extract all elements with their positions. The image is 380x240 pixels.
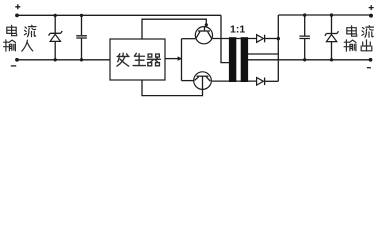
label + input <box>15 4 20 9</box>
transistor Q2 <box>194 72 212 90</box>
transformer T1 secondary bar <box>241 37 248 82</box>
zener diode D5 <box>325 31 339 41</box>
输 <box>344 40 356 51</box>
capacitor C1 vertical wire <box>81 15 83 60</box>
node output minus terminal <box>369 58 373 62</box>
电 <box>347 26 357 36</box>
wire generator output stub <box>165 58 178 60</box>
node dot Q1 top lead <box>205 23 208 26</box>
label + output <box>369 5 374 10</box>
wire Q2 collector to transformer <box>211 80 256 82</box>
输 <box>4 40 16 51</box>
wire top rail drop to primary centre tap <box>221 15 229 62</box>
diode D3 <box>257 35 265 43</box>
transistor Q1 <box>195 27 212 44</box>
node junction dots D1 <box>54 14 57 17</box>
node dot D3 out <box>277 37 280 40</box>
wire D4 to plus bus <box>265 80 278 82</box>
wire drive vertical <box>181 39 183 81</box>
node junction dots D5 <box>330 13 333 16</box>
生 <box>133 53 145 65</box>
出 <box>361 40 372 51</box>
zener diode D1 vertical wire <box>54 15 56 60</box>
label output text 输出 <box>344 40 372 51</box>
入 <box>22 40 33 51</box>
transformer T1 primary bar <box>229 37 236 82</box>
电 <box>7 25 17 35</box>
wire to Q2 base left <box>182 80 194 82</box>
zener diode D5 vertical wire <box>331 15 333 60</box>
wire to Q1 emitter left <box>182 38 196 40</box>
label input text 输入 <box>4 40 33 51</box>
label - output <box>367 67 371 69</box>
器 <box>147 54 160 66</box>
generator box U1 <box>110 39 165 80</box>
wire bottom-right rail from secondary <box>248 59 371 61</box>
流 <box>24 25 36 37</box>
label input text 电流 <box>7 25 36 37</box>
capacitor C1 <box>76 36 87 38</box>
wire plus bus vertical <box>277 15 279 81</box>
wire secondary upper tap <box>248 53 278 55</box>
label - input <box>11 65 16 67</box>
wire D3 to plus bus <box>265 38 278 40</box>
wire Q2 emitter return to generator bottom <box>142 80 203 96</box>
node junction dots C2 <box>303 13 306 16</box>
wire bottom-left rail <box>17 59 110 61</box>
svg-text:1:1: 1:1 <box>230 23 245 35</box>
wire generator top to Q1 base <box>142 19 206 39</box>
node input minus terminal <box>15 58 19 62</box>
wire top-right rail <box>278 14 369 16</box>
wire top-left rail <box>17 14 221 16</box>
zener diode D1 <box>49 31 63 41</box>
流 <box>362 26 374 38</box>
label generator text 发生器 <box>117 53 160 66</box>
capacitor C2 vertical wire <box>304 15 306 60</box>
发 <box>117 53 129 66</box>
capacitor C2 <box>299 36 310 38</box>
arrowhead generator output <box>178 56 183 60</box>
node junction dots C1 <box>80 14 83 17</box>
node input plus terminal <box>15 14 19 18</box>
label output text 电流 <box>347 26 374 38</box>
wire Q1 collector to transformer <box>212 38 256 40</box>
diode D4 <box>257 78 265 86</box>
node output plus terminal <box>369 14 373 18</box>
